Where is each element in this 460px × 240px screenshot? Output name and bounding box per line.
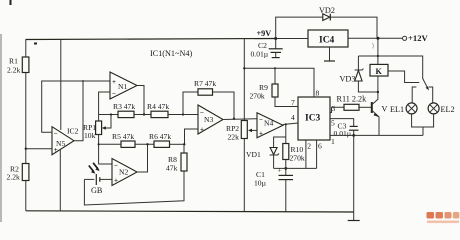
svg-text:7: 7	[291, 98, 295, 107]
lamp EL1	[390, 103, 417, 114]
wire: N2 output riser to R5/R6 node	[137, 143, 149, 172]
svg-text:+: +	[112, 78, 116, 86]
speck on top rail	[34, 43, 37, 45]
op-amp N1	[110, 72, 137, 99]
scan tick top-left	[10, 0, 12, 5]
wire: +9V branch to R9 and pin 8	[243, 67, 314, 97]
svg-text:R6 47k: R6 47k	[149, 132, 171, 141]
svg-text:+: +	[200, 126, 204, 134]
ground stem and symbol	[348, 135, 360, 220]
svg-text:K: K	[376, 67, 383, 76]
wire: +9V node to IC4 and +12V rail	[274, 37, 402, 40]
relay mechanical linkage	[388, 71, 419, 83]
svg-text:V: V	[382, 105, 388, 114]
svg-text:270k: 270k	[250, 92, 265, 101]
diode VD1	[246, 148, 279, 169]
wire: VD3 top / contact feed line	[358, 55, 422, 79]
wire: bottom ground rail	[26, 211, 354, 212]
scan smudge	[372, 43, 374, 49]
capacitor C3	[334, 122, 359, 139]
svg-text:270k: 270k	[290, 154, 305, 163]
svg-text:−: −	[114, 162, 118, 170]
svg-text:N2: N2	[119, 168, 128, 177]
svg-text:6: 6	[318, 142, 322, 151]
svg-text:−: −	[54, 130, 58, 138]
wire: GB return to R8 bottom	[84, 171, 184, 205]
svg-text:8: 8	[316, 89, 320, 98]
wire: divider tap to N5 + input	[25, 148, 52, 150]
resistor R8	[166, 143, 187, 172]
svg-text:+12V: +12V	[408, 33, 428, 43]
wire: N5 ground supply line	[59, 150, 61, 211]
resistor R2	[7, 164, 29, 182]
wire: N4 output to IC3 pin 4	[283, 123, 298, 125]
svg-text:N5: N5	[56, 139, 65, 148]
svg-text:+: +	[259, 130, 263, 138]
potentiometer RP2	[226, 121, 257, 142]
wire: IC3 pin3 to R11	[330, 107, 344, 112]
resistor R9	[250, 68, 299, 106]
resistor R7 feedback	[182, 79, 235, 120]
svg-text:2.2k: 2.2k	[7, 66, 20, 75]
svg-text:−: −	[259, 116, 263, 124]
svg-text:VD1: VD1	[246, 150, 261, 159]
svg-text:4: 4	[291, 113, 295, 122]
wire: N3 plus input from R6/R8 node	[185, 129, 199, 144]
svg-text:R1: R1	[9, 57, 18, 66]
transistor V	[372, 76, 388, 135]
svg-text:N3: N3	[204, 115, 213, 124]
wire: +9V feed line down right side of IC1	[243, 39, 245, 212]
svg-text:1: 1	[331, 137, 335, 146]
wire: RP1 bottom to R5 node and N2 minus	[98, 135, 113, 165]
photocell GB	[84, 163, 112, 195]
svg-text:2.2k: 2.2k	[7, 173, 20, 182]
wire: N1 minus input	[99, 92, 110, 115]
wire: N5 V+ supply line	[60, 40, 62, 131]
svg-text:+: +	[278, 166, 282, 175]
svg-text:R4 47k: R4 47k	[147, 102, 169, 111]
svg-text:EL1: EL1	[390, 105, 404, 114]
svg-text:+: +	[114, 177, 118, 185]
svg-text:VD3: VD3	[340, 75, 356, 84]
svg-text:0.01µ: 0.01µ	[334, 129, 352, 138]
relay contact arm	[423, 79, 429, 91]
resistor R6	[149, 132, 185, 147]
svg-text:0.01µ: 0.01µ	[251, 50, 269, 59]
scan edge artifact left	[0, 34, 2, 222]
capacitor C1	[254, 166, 293, 212]
potentiometer RP1	[83, 113, 112, 140]
wire: left divider vertical	[25, 40, 27, 58]
wire: N5 minus input and feedback riser	[42, 80, 110, 141]
svg-text:VD2: VD2	[319, 6, 335, 15]
resistor R10	[283, 144, 305, 169]
wire: IC3 pin1 / common node line	[330, 134, 423, 137]
svg-text:R3 47k: R3 47k	[113, 102, 135, 111]
svg-text:47k: 47k	[166, 164, 178, 173]
svg-text:10k: 10k	[84, 131, 96, 140]
svg-text:IC4: IC4	[319, 36, 335, 46]
svg-text:5: 5	[331, 119, 335, 128]
resistor R1	[7, 57, 29, 75]
terminal +12V	[403, 33, 429, 43]
wire: IC3 pin5 to C3	[330, 119, 354, 127]
svg-text:EL2: EL2	[441, 105, 455, 114]
svg-text:+9V: +9V	[257, 29, 272, 38]
svg-text:R5 47k: R5 47k	[112, 132, 134, 141]
svg-text:IC3: IC3	[305, 114, 321, 124]
relay fixed contact EL2 side	[429, 87, 433, 103]
svg-text:N4: N4	[264, 119, 273, 128]
wire: N3 output to N4 minus input	[223, 118, 257, 121]
watermark	[427, 212, 460, 223]
resistor R4	[147, 102, 198, 118]
svg-text:10µ: 10µ	[254, 179, 267, 188]
wire: VD1/R10 bottom node to IC3 pins 2,6	[274, 140, 317, 170]
svg-text:R11 2.2k: R11 2.2k	[337, 95, 368, 104]
IC3 timer box	[291, 89, 336, 151]
wire: +9V top rail	[26, 39, 276, 40]
svg-text:N1: N1	[118, 82, 127, 91]
lamp EL2	[428, 103, 455, 114]
resistor R5	[99, 132, 154, 147]
wire: N1 output to R3/R4 node	[137, 86, 145, 116]
relay fixed contact EL1 side	[412, 87, 416, 103]
svg-text:2: 2	[307, 142, 311, 151]
resistor R3	[99, 102, 151, 118]
capacitor C2	[251, 39, 283, 59]
diode VD3 (zener)	[340, 56, 380, 93]
svg-text:−: −	[112, 90, 116, 98]
voltage regulator IC4	[308, 30, 348, 61]
wire: drop to VD1/R10	[285, 124, 287, 143]
wire: lamp returns	[412, 114, 434, 127]
svg-text:3: 3	[332, 104, 336, 113]
svg-text:IC1(N1~N4): IC1(N1~N4)	[150, 49, 192, 58]
op-amp N4	[257, 113, 283, 138]
svg-text:22k: 22k	[228, 133, 240, 142]
op-amp N2	[112, 159, 137, 186]
diode VD2 bypass	[276, 6, 377, 39]
op-amp N3	[198, 105, 223, 134]
svg-text:R7 47k: R7 47k	[194, 79, 216, 88]
resistor R11	[337, 95, 372, 111]
op-amp IC2 N5	[52, 127, 79, 155]
relay coil K	[370, 39, 388, 77]
svg-text:GB: GB	[91, 186, 103, 195]
svg-text:IC2: IC2	[67, 127, 79, 136]
